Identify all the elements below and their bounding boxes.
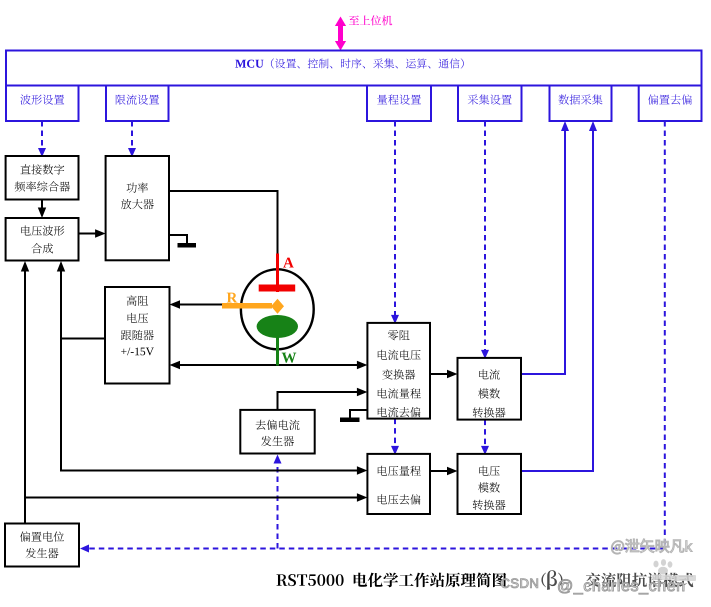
wire 参比电极R→高阻跟随器 — [170, 300, 224, 308]
block 量程设置 — [367, 86, 431, 122]
wire node E to 电压波形合成 and 电压量程 — [57, 261, 368, 475]
MCU block U1 — [6, 51, 702, 86]
block 零阻电流电压变换器 — [367, 323, 430, 419]
caption （β） — [541, 573, 546, 588]
block 偏置电位发生器 — [5, 524, 79, 567]
label W — [282, 353, 297, 363]
control wire 波形设置→DDS (dashed) — [38, 121, 46, 157]
label 限流设置 — [116, 94, 159, 104]
wire 偏置电位发生器→电压波形合成 — [21, 261, 29, 524]
block 去偏电流发生器 — [240, 410, 314, 454]
label 量程设置 — [377, 94, 421, 104]
wire 电压波形合成→功率放大器 — [79, 229, 106, 237]
control wire 限流设置→功率放大器 (dashed) — [128, 121, 136, 157]
caption 交流阻抗谱模式 — [586, 573, 694, 588]
label 数据采集 — [559, 94, 603, 104]
control wire 偏置去偏 vertical (dashed) — [664, 121, 666, 549]
block 限流设置 — [106, 86, 169, 122]
block 功率放大器 — [106, 156, 169, 260]
control wire 电流模数→电压模数 (dashed) — [481, 420, 489, 455]
label 偏置电位发生器 — [20, 531, 64, 541]
block 电压波形合成 — [6, 218, 79, 261]
label 功率放大器 — [127, 182, 148, 192]
control wire to 去偏电流发生器 (dashed) — [274, 455, 282, 549]
wire to host (magenta double arrow) — [335, 17, 346, 51]
data wire 电压模数→数据采集 — [521, 121, 597, 471]
label MCU — [235, 58, 463, 68]
wire 零阻变换器→电流模数 — [430, 370, 458, 378]
ground at 功率放大器 — [169, 235, 196, 248]
control wire 采集设置→电流模数 (dashed) — [481, 121, 489, 359]
block 电流模数转换器 — [458, 358, 522, 420]
label 采集设置 — [468, 94, 512, 104]
label 电压模数转换器 — [479, 466, 500, 476]
data wire 电流模数→数据采集 — [521, 121, 569, 374]
electrode R (reference, orange) — [222, 299, 284, 314]
ground at 零阻变换器 — [340, 410, 367, 422]
label 电压量程电压去偏 — [378, 466, 421, 476]
cell body (beaker circle) — [241, 269, 314, 349]
label 电压波形合成 — [21, 226, 64, 236]
wire 功率放大器→对电极A — [169, 191, 278, 254]
label A — [283, 258, 294, 268]
label 至上位机 — [349, 15, 392, 25]
label 直接数字频率综合器 — [20, 164, 64, 174]
block 数据采集 — [550, 86, 612, 122]
electrode A (counter, red) — [259, 254, 296, 293]
wire 去偏电流发生器→零阻变换器 — [278, 388, 368, 410]
wire 电压量程→电压模数 — [430, 467, 458, 475]
label 去偏电流发生器 — [256, 420, 300, 430]
block 波形设置 — [6, 86, 79, 122]
wire 工作电极W bus — [170, 361, 368, 369]
block 电压量程电压去偏 — [367, 454, 430, 514]
watermark @泄矢映凡k — [611, 539, 692, 554]
wire DDS→电压波形合成 — [38, 200, 46, 219]
electrode W (working, green) — [257, 315, 298, 366]
control wire 量程设置→零阻变换器 (dashed) — [391, 121, 399, 324]
label 波形设置 — [20, 94, 64, 104]
block 偏置去偏 — [639, 86, 702, 122]
control wire 零阻→电压量程 (dashed) — [391, 419, 399, 455]
wire 高阻跟随器 output stub — [61, 338, 105, 340]
label 电流模数转换器 — [479, 369, 500, 379]
label 零阻电流电压变换器 — [388, 330, 410, 340]
caption RST5000 — [276, 573, 506, 588]
watermark paw logo — [652, 559, 696, 581]
label R — [227, 293, 238, 303]
control wire 偏置 horizontal to 偏置电位发生器 (dashed) — [80, 545, 665, 553]
block 电压模数转换器 — [458, 454, 522, 514]
block 采集设置 — [458, 86, 522, 122]
watermark CSDN @_charles_chen — [501, 579, 538, 588]
block 高阻电压跟随器 — [105, 287, 170, 384]
wire node bias→电压去偏 — [25, 493, 367, 501]
block 直接数字频率综合器 — [6, 156, 79, 200]
label 高阻电压跟随器 +/-15V — [127, 295, 148, 305]
label 偏置去偏 — [648, 94, 692, 104]
